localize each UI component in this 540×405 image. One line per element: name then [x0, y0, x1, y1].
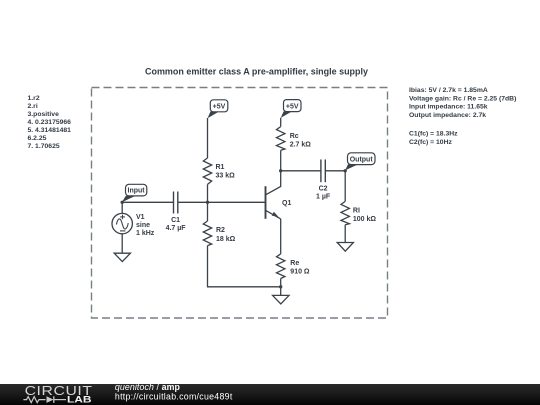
svg-text:LAB: LAB	[67, 394, 92, 404]
svg-text:4. 0.23175966: 4. 0.23175966	[28, 119, 72, 126]
node: collector junction	[279, 169, 282, 172]
svg-text:C2(fc) = 10Hz: C2(fc) = 10Hz	[409, 139, 452, 146]
wire: R2 bottom to emitter ground rail	[208, 246, 281, 287]
CircuitLab logo resistor-diode glyph	[23, 396, 66, 403]
resistor R2	[203, 221, 235, 246]
svg-text:R1: R1	[216, 164, 225, 171]
CircuitLab logo wordmark LAB	[67, 394, 92, 404]
svg-text:Ibias: 5V / 2.7k = 1.85mA: Ibias: 5V / 2.7k = 1.85mA	[409, 87, 488, 94]
svg-text:1.r2: 1.r2	[28, 95, 40, 102]
wire: input node to C1	[122, 201, 173, 203]
node: input junction	[121, 201, 124, 204]
wire: C2 to output node	[325, 170, 345, 172]
svg-text:33 kΩ: 33 kΩ	[216, 173, 236, 180]
capacitor C1	[166, 192, 187, 233]
svg-text:Re: Re	[290, 260, 299, 267]
ground (V1)	[114, 253, 130, 261]
+5V supply flag V+ (R1 branch)	[208, 100, 228, 118]
wire: C1 to base of Q1	[178, 201, 265, 203]
svg-text:Input impedance: 11.65k: Input impedance: 11.65k	[409, 104, 488, 111]
footer url	[115, 391, 233, 401]
footer credit line: quenitoch / amp	[115, 382, 181, 392]
svg-text:Voltage gain: Rc / Re = 2.25 (: Voltage gain: Rc / Re = 2.25 (7dB)	[409, 95, 516, 102]
resistor Re	[277, 254, 310, 279]
svg-text:C1(fc) = 18.3Hz: C1(fc) = 18.3Hz	[409, 131, 458, 138]
svg-text:http://circuitlab.com/cue489t: http://circuitlab.com/cue489t	[115, 391, 233, 401]
svg-text:Output impedance: 2.7k: Output impedance: 2.7k	[409, 112, 486, 119]
ground (RI)	[337, 243, 353, 252]
svg-text:910 Ω: 910 Ω	[290, 269, 310, 276]
svg-text:C2: C2	[319, 186, 328, 193]
+5V supply flag V+ (Rc branch)	[281, 100, 301, 118]
resistor RI	[341, 201, 376, 224]
svg-text:Q1: Q1	[282, 200, 291, 207]
wire: Q1 emitter down to Re	[280, 219, 282, 254]
svg-text:V1: V1	[136, 214, 145, 221]
svg-text:100 kΩ: 100 kΩ	[353, 216, 377, 223]
svg-text:6.2.25: 6.2.25	[28, 135, 47, 142]
wire: input node to V1 top	[121, 202, 123, 213]
svg-text:R2: R2	[216, 227, 225, 234]
capacitor C2	[316, 160, 331, 201]
wire: +5V flag to Rc top	[280, 118, 282, 127]
wire: R1 bottom to base node	[207, 184, 209, 202]
svg-text:2.ri: 2.ri	[28, 103, 38, 110]
wire: Re bottom to ground node	[280, 279, 282, 296]
Output flag	[345, 153, 375, 171]
svg-text:4.7 µF: 4.7 µF	[166, 225, 187, 232]
wire: output node to RI top	[344, 171, 346, 202]
svg-text:18 kΩ: 18 kΩ	[216, 236, 236, 243]
svg-text:5. 4.31481481: 5. 4.31481481	[28, 127, 72, 134]
svg-text:1 kHz: 1 kHz	[136, 230, 155, 237]
footer bar	[0, 384, 540, 405]
annotation text block right	[409, 87, 516, 146]
annotation text block left	[28, 95, 72, 150]
schematic boundary (dashed frame)	[92, 88, 388, 319]
CircuitLab logo wordmark CIRCUIT	[25, 383, 93, 398]
wire: RI bottom to ground	[344, 225, 346, 243]
wire: Rc bottom to collector node	[280, 150, 282, 171]
node: R1/R2/base junction	[206, 201, 209, 204]
svg-text:2.7 kΩ: 2.7 kΩ	[290, 142, 312, 149]
resistor Rc	[277, 127, 312, 151]
svg-text:Rc: Rc	[290, 133, 299, 140]
transistor Q1 (NPN)	[266, 186, 292, 219]
wire: collector node to C2	[281, 170, 321, 172]
svg-text:+5V: +5V	[286, 103, 299, 110]
svg-text:C1: C1	[171, 217, 180, 224]
wire: +5V flag to R1 top	[207, 118, 209, 158]
node: output junction	[344, 169, 347, 172]
svg-text:Input: Input	[128, 188, 146, 195]
ground (Re)	[273, 295, 289, 304]
svg-text:Output: Output	[350, 156, 374, 163]
wire: V1 bottom to ground	[121, 234, 123, 253]
svg-text:3.positive: 3.positive	[28, 111, 60, 118]
svg-text:1 µF: 1 µF	[316, 194, 331, 201]
svg-text:Common emitter class A pre-amp: Common emitter class A pre-amplifier, si…	[145, 67, 368, 77]
Input flag	[122, 184, 147, 202]
wire: collector node down to Q1 collector	[266, 171, 281, 195]
wire: base node to R2 top	[207, 202, 209, 221]
resistor R1	[203, 158, 235, 184]
svg-text:RI: RI	[353, 208, 360, 215]
svg-text:+5V: +5V	[213, 104, 226, 111]
title	[145, 67, 368, 77]
node: emitter ground junction	[279, 285, 282, 288]
voltage source V1 (sine 1 kHz)	[112, 213, 155, 237]
svg-text:sine: sine	[136, 222, 150, 229]
svg-text:7. 1.70625: 7. 1.70625	[28, 143, 60, 150]
